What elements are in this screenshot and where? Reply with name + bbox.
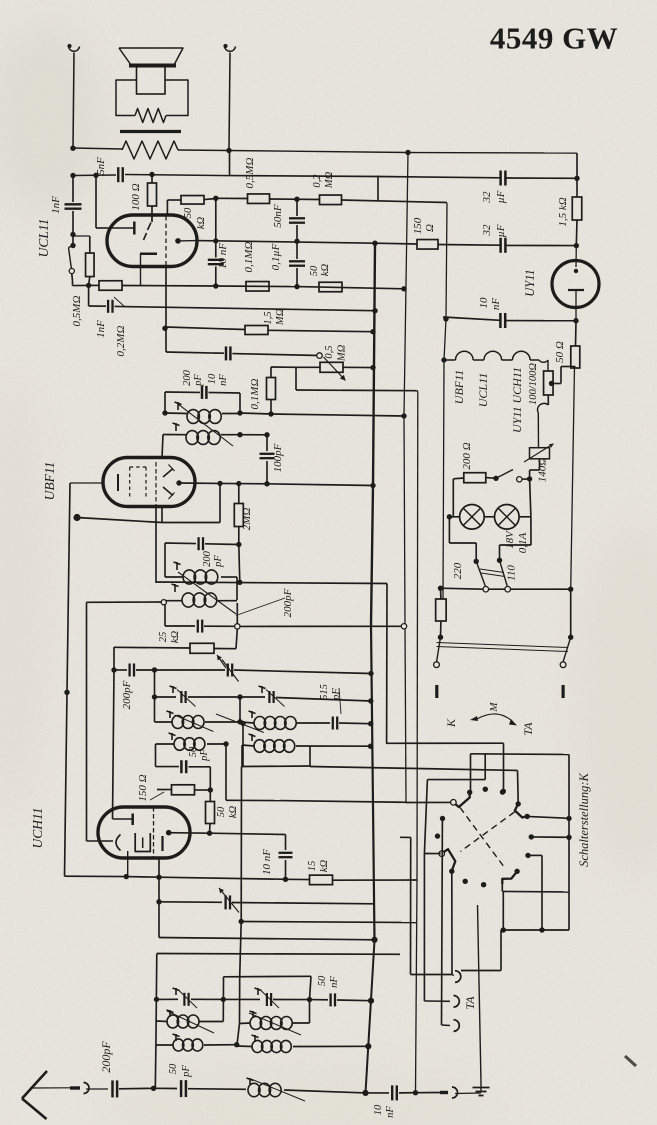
svg-text:Schalterstellung:K: Schalterstellung:K bbox=[577, 772, 591, 866]
svg-text:kΩ: kΩ bbox=[228, 805, 239, 818]
svg-text:200: 200 bbox=[202, 550, 213, 567]
svg-text:pF: pF bbox=[181, 1065, 192, 1078]
svg-text:50 Ω: 50 Ω bbox=[554, 341, 566, 363]
svg-text:UCL11: UCL11 bbox=[36, 219, 51, 258]
svg-text:200pF: 200pF bbox=[99, 1041, 113, 1073]
svg-text:100/100Ω: 100/100Ω bbox=[528, 363, 539, 405]
svg-text:MΩ: MΩ bbox=[324, 171, 335, 189]
svg-text:50: 50 bbox=[168, 1063, 179, 1074]
svg-text:50: 50 bbox=[216, 806, 227, 817]
svg-text:15: 15 bbox=[307, 861, 318, 872]
svg-text:pF: pF bbox=[331, 688, 342, 701]
svg-text:32: 32 bbox=[481, 191, 493, 204]
svg-text:kΩ: kΩ bbox=[196, 216, 207, 229]
svg-text:µF: µF bbox=[495, 224, 507, 237]
svg-text:kΩ: kΩ bbox=[320, 263, 331, 276]
svg-text:0,5MΩ: 0,5MΩ bbox=[71, 296, 83, 327]
svg-text:0,1µF: 0,1µF bbox=[270, 243, 282, 270]
svg-text:150 Ω: 150 Ω bbox=[137, 774, 149, 801]
svg-text:25: 25 bbox=[158, 632, 169, 643]
svg-text:UBF11: UBF11 bbox=[452, 370, 466, 404]
svg-text:Ω: Ω bbox=[424, 224, 436, 232]
svg-text:M: M bbox=[488, 702, 500, 713]
svg-text:0,2MΩ: 0,2MΩ bbox=[115, 326, 127, 357]
svg-text:UCH11: UCH11 bbox=[30, 807, 45, 848]
svg-text:pF: pF bbox=[213, 555, 224, 568]
svg-text:2MΩ: 2MΩ bbox=[241, 508, 253, 531]
svg-text:1,5 kΩ: 1,5 kΩ bbox=[557, 197, 569, 226]
svg-text:200pF: 200pF bbox=[121, 680, 133, 709]
svg-text:pF: pF bbox=[199, 749, 210, 762]
svg-text:150: 150 bbox=[412, 217, 424, 234]
svg-text:UBF11: UBF11 bbox=[42, 462, 57, 501]
svg-text:10 nF: 10 nF bbox=[217, 243, 229, 269]
svg-text:MΩ: MΩ bbox=[337, 344, 348, 362]
svg-text:200: 200 bbox=[182, 369, 193, 386]
svg-text:10: 10 bbox=[478, 297, 490, 309]
svg-text:0,5: 0,5 bbox=[324, 345, 335, 358]
svg-text:18V: 18V bbox=[504, 530, 516, 549]
svg-text:50: 50 bbox=[317, 975, 328, 986]
svg-text:UCL11: UCL11 bbox=[476, 373, 490, 407]
svg-text:pF: pF bbox=[193, 374, 204, 387]
svg-text:50nF: 50nF bbox=[272, 204, 284, 228]
svg-text:nF: nF bbox=[490, 298, 502, 311]
svg-text:515: 515 bbox=[319, 684, 330, 700]
svg-text:50: 50 bbox=[183, 207, 194, 218]
svg-text:5nF: 5nF bbox=[95, 157, 107, 175]
svg-text:1,5: 1,5 bbox=[263, 311, 274, 324]
svg-text:K: K bbox=[444, 718, 458, 728]
svg-text:µF: µF bbox=[495, 190, 507, 203]
svg-text:UY11: UY11 bbox=[523, 269, 537, 297]
svg-text:TA: TA bbox=[521, 722, 535, 736]
svg-text:0,5MΩ: 0,5MΩ bbox=[244, 158, 256, 189]
svg-text:100pF: 100pF bbox=[272, 443, 284, 472]
svg-text:nF: nF bbox=[329, 976, 340, 988]
svg-text:0,1MΩ: 0,1MΩ bbox=[243, 242, 255, 273]
svg-text:200 Ω: 200 Ω bbox=[461, 442, 473, 469]
svg-text:200pF: 200pF bbox=[282, 588, 294, 617]
svg-text:50: 50 bbox=[188, 746, 199, 757]
svg-text:220: 220 bbox=[452, 562, 464, 579]
svg-text:0,1MΩ: 0,1MΩ bbox=[249, 379, 261, 410]
svg-text:kΩ: kΩ bbox=[170, 630, 181, 643]
svg-text:nF: nF bbox=[385, 1106, 396, 1118]
svg-text:nF: nF bbox=[218, 374, 229, 386]
svg-text:1nF: 1nF bbox=[95, 320, 107, 338]
svg-text:100 Ω: 100 Ω bbox=[130, 183, 142, 210]
svg-text:4549 GW: 4549 GW bbox=[490, 21, 618, 56]
svg-text:MΩ: MΩ bbox=[275, 308, 286, 326]
svg-text:TA: TA bbox=[463, 996, 477, 1010]
svg-text:10 nF: 10 nF bbox=[261, 849, 273, 875]
svg-text:32: 32 bbox=[481, 224, 493, 237]
svg-text:UY11 UCH11: UY11 UCH11 bbox=[510, 367, 524, 433]
svg-text:0,1A: 0,1A bbox=[517, 532, 529, 553]
svg-text:kΩ: kΩ bbox=[319, 859, 330, 872]
svg-text:50: 50 bbox=[309, 265, 320, 276]
svg-text:1nF: 1nF bbox=[50, 196, 62, 214]
svg-text:10: 10 bbox=[373, 1104, 384, 1115]
svg-text:10: 10 bbox=[207, 373, 218, 384]
svg-text:110: 110 bbox=[506, 565, 518, 581]
